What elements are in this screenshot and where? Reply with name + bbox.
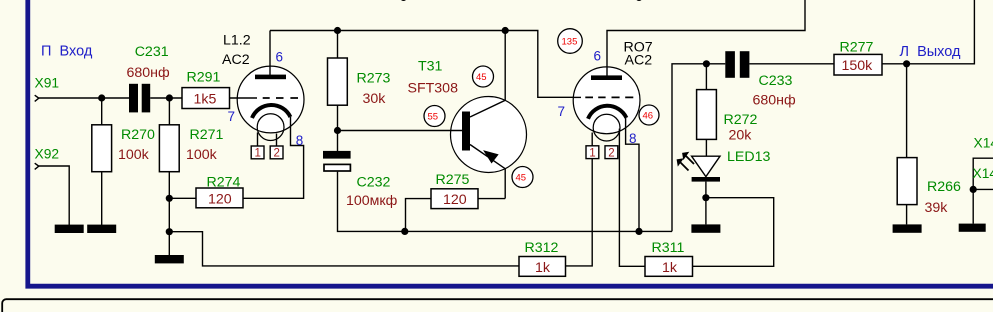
T31 type SFT308 xyxy=(408,81,459,97)
svg-text:SFT308: SFT308 xyxy=(408,81,459,97)
T31 collector xyxy=(470,31,505,118)
svg-text:2: 2 xyxy=(608,148,614,160)
junction R271/R274 xyxy=(166,195,173,202)
resistor R275 label xyxy=(436,172,470,188)
wire R274 to tube cathode xyxy=(243,117,304,198)
wire X92 to ground xyxy=(39,166,69,225)
svg-text:2: 2 xyxy=(274,148,280,160)
terminal X91 xyxy=(35,95,39,101)
svg-text:45: 45 xyxy=(516,173,527,184)
test point 55 (base) xyxy=(424,106,445,127)
T31 base bar xyxy=(462,112,470,151)
wire C231 to R291 xyxy=(150,97,182,99)
svg-text:R277: R277 xyxy=(840,40,874,56)
svg-text:AC2: AC2 xyxy=(222,52,250,68)
svg-text:T31: T31 xyxy=(418,59,443,75)
transistor T31 label xyxy=(418,59,443,75)
tube RO7 label xyxy=(624,40,653,69)
RO7 pin 8 label xyxy=(629,131,637,146)
L1.2 pin 8 label xyxy=(296,133,304,148)
R271 bottom lead to ground xyxy=(168,172,170,256)
ground (X14) xyxy=(959,224,986,232)
svg-text:C231: C231 xyxy=(135,44,169,60)
ground (R266) xyxy=(893,224,922,232)
capacitor C232 label xyxy=(357,175,391,191)
terminal X91 label xyxy=(35,76,60,91)
LED13 emission arrows xyxy=(677,152,694,171)
svg-text:1k5: 1k5 xyxy=(194,92,217,108)
tube L1.2 label xyxy=(222,33,251,69)
junction C231/R271/R291 xyxy=(166,94,173,101)
svg-text:1k: 1k xyxy=(535,260,551,276)
terminal X92 label xyxy=(35,147,60,162)
resistor R312 xyxy=(519,257,566,277)
junction output node xyxy=(903,60,910,67)
tube L1.2 envelope xyxy=(237,66,304,133)
terminal X92 xyxy=(35,163,39,169)
R275 left lead xyxy=(406,199,432,232)
junction R271/R312 run xyxy=(166,228,173,235)
transistor T31 circle xyxy=(451,97,527,173)
terminal X14 lower wire xyxy=(973,189,993,223)
L1.2 cathode arc xyxy=(252,105,290,118)
RO7 pin 6 label xyxy=(594,49,602,64)
wire R291 to tube grid xyxy=(230,97,258,99)
svg-text:8: 8 xyxy=(629,131,637,146)
junction LED/R311 xyxy=(702,194,709,201)
anode supply rail xyxy=(270,31,574,98)
resistor R270 value xyxy=(118,147,150,163)
resistor R273 label xyxy=(357,71,391,87)
svg-text:120: 120 xyxy=(208,191,232,207)
resistor R272 xyxy=(697,64,717,156)
junction RO7 cathode/emitter run xyxy=(635,228,642,235)
svg-text:R291: R291 xyxy=(187,70,221,86)
svg-text:R275: R275 xyxy=(436,172,470,188)
resistor R271 value xyxy=(186,147,218,163)
junction X14 lower xyxy=(970,186,977,193)
RO7 pin box 1 xyxy=(586,146,599,160)
svg-text:30k: 30k xyxy=(363,91,387,107)
svg-text:8: 8 xyxy=(296,133,304,148)
L1.2 anode lead xyxy=(269,31,271,76)
svg-text:135: 135 xyxy=(562,37,578,48)
LED13 lead to ground xyxy=(705,182,707,225)
ground (LED13) xyxy=(691,224,720,232)
L1.2 heater xyxy=(257,114,284,141)
junction top rail A (clipped) xyxy=(400,0,407,1)
wire X91 to C231 xyxy=(39,97,129,99)
L1.2 pin box 1 xyxy=(251,146,264,160)
svg-text:120: 120 xyxy=(443,192,467,208)
tube RO7 envelope xyxy=(573,67,640,134)
R270 bottom lead xyxy=(101,172,103,225)
L1.2 grid (dashed) xyxy=(263,97,298,99)
junction X91/R270 xyxy=(98,94,105,101)
svg-text:7: 7 xyxy=(228,109,236,124)
resistor R271 label xyxy=(190,127,224,143)
RO7 pin box 2 xyxy=(605,146,618,160)
svg-text:100k: 100k xyxy=(118,147,150,163)
resistor R271 top lead xyxy=(168,98,170,125)
RO7 cathode arc xyxy=(588,106,626,119)
resistor R273 value xyxy=(363,91,387,107)
svg-text:R266: R266 xyxy=(927,179,961,195)
capacitor C231 xyxy=(129,84,150,113)
junction top rail B (clipped) xyxy=(635,0,642,1)
resistor R277 xyxy=(834,54,882,75)
junction C232/R275 xyxy=(401,228,408,235)
svg-text:R312: R312 xyxy=(525,240,559,256)
RO7 pin 1 wire to R312 xyxy=(566,159,593,266)
svg-text:20k: 20k xyxy=(729,128,753,144)
test point 45 (collector) xyxy=(473,66,494,87)
RO7 anode lead + rail to top xyxy=(607,0,805,76)
RO7 grid (dashed) xyxy=(574,96,634,98)
svg-text:X92: X92 xyxy=(35,147,60,162)
junction R272 top xyxy=(703,60,710,67)
resistor R311 xyxy=(645,257,693,277)
RO7 pin 7 label xyxy=(558,104,566,119)
svg-text:LED13: LED13 xyxy=(727,149,770,165)
svg-text:100k: 100k xyxy=(186,147,218,163)
test point 135 xyxy=(558,29,583,54)
R275 right lead to emitter xyxy=(478,198,505,200)
svg-text:680нф: 680нф xyxy=(127,65,171,81)
capacitor C233 label xyxy=(759,73,793,89)
svg-text:7: 7 xyxy=(558,104,566,119)
svg-text:X14: X14 xyxy=(973,166,993,181)
ground (R271) xyxy=(155,255,184,263)
node Л Выход label xyxy=(900,44,961,60)
svg-text:L1.2: L1.2 xyxy=(223,33,251,49)
LED13 diode xyxy=(692,156,720,181)
resistor R291 label xyxy=(187,70,221,86)
svg-text:6: 6 xyxy=(594,49,602,64)
svg-text:680нф: 680нф xyxy=(753,93,797,109)
junction R273 top xyxy=(334,27,341,34)
resistor R270 label xyxy=(121,127,155,143)
L1.2 heater pin leads xyxy=(258,133,277,147)
node П Вход label xyxy=(41,44,93,60)
resistor R266 xyxy=(897,64,917,225)
wire C233 to R277 xyxy=(749,63,834,65)
ground (R270) xyxy=(87,225,116,233)
svg-text:150k: 150k xyxy=(842,58,874,74)
RO7 heater xyxy=(593,114,620,141)
RO7 anode plate xyxy=(591,75,622,80)
svg-text:1: 1 xyxy=(255,148,261,160)
C232 bottom lead + emitter node run xyxy=(338,172,673,232)
T31 emitter arrow (PNP) xyxy=(484,151,498,163)
resistor R274 xyxy=(196,188,243,208)
svg-text:6: 6 xyxy=(276,50,284,65)
wire R274 node run xyxy=(169,197,196,199)
resistor R277 label xyxy=(840,40,874,56)
svg-text:AC2: AC2 xyxy=(625,53,653,69)
test point 45 (emitter) xyxy=(512,167,533,188)
RO7 heater pin 1 lead xyxy=(591,133,593,146)
title block frame (bottom) xyxy=(2,299,993,312)
svg-text:R270: R270 xyxy=(121,127,155,143)
capacitor C233 xyxy=(725,51,749,78)
terminal X14 upper wire xyxy=(973,158,993,189)
resistor R275 xyxy=(431,189,478,209)
resistor R270 xyxy=(92,125,112,172)
LED13 label xyxy=(727,149,770,165)
svg-text:R271: R271 xyxy=(190,127,224,143)
capacitor C232 (electrolytic) xyxy=(323,151,351,171)
resistor R271 xyxy=(159,125,179,172)
RO7 cathode lead xyxy=(626,118,639,232)
resistor R291 xyxy=(182,88,230,109)
junction R273/C232/base xyxy=(334,127,341,134)
svg-text:X14: X14 xyxy=(974,136,993,151)
svg-text:45: 45 xyxy=(476,72,487,83)
svg-text:55: 55 xyxy=(428,112,439,123)
svg-text:1: 1 xyxy=(589,148,595,160)
resistor R311 label xyxy=(652,240,685,256)
resistor R272 value xyxy=(729,128,753,144)
resistor R312 label xyxy=(525,240,559,256)
svg-text:100мкф: 100мкф xyxy=(346,193,398,209)
C231 value 680нф xyxy=(127,65,171,81)
resistor R272 label xyxy=(724,112,758,128)
ground (X92) xyxy=(55,225,84,233)
svg-text:C233: C233 xyxy=(759,73,793,89)
svg-text:Л Выход: Л Выход xyxy=(900,44,961,60)
wire R277 to output xyxy=(882,0,974,64)
svg-text:X91: X91 xyxy=(35,76,60,91)
junction T31 collector rail xyxy=(502,27,509,34)
resistor R273 xyxy=(328,31,348,152)
RO7 pin 2 wire to R311 xyxy=(619,129,645,267)
resistor R266 label xyxy=(927,179,961,195)
svg-text:R273: R273 xyxy=(357,71,391,87)
svg-text:C232: C232 xyxy=(357,175,391,191)
wire R273 node to T31 base xyxy=(338,130,463,132)
L1.2 anode plate xyxy=(255,75,286,80)
T31 emitter xyxy=(470,145,505,199)
svg-text:R311: R311 xyxy=(652,240,685,256)
terminal X14 upper label xyxy=(974,136,993,151)
L1.2 pin 6 label xyxy=(276,50,284,65)
svg-text:П Вход: П Вход xyxy=(41,44,93,60)
svg-text:R272: R272 xyxy=(724,112,758,128)
svg-text:39k: 39k xyxy=(925,200,949,216)
wire LED node to R311 xyxy=(693,198,774,267)
C233 value 680нф xyxy=(753,93,797,109)
L1.2 pin box 2 xyxy=(270,146,283,160)
wire cathode node to C233 xyxy=(672,64,725,232)
terminal X14 lower label xyxy=(973,166,993,181)
L1.2 pin 7 label xyxy=(228,109,236,124)
svg-text:46: 46 xyxy=(643,111,654,122)
resistor R266 value xyxy=(925,200,949,216)
capacitor C231 label xyxy=(135,44,169,60)
test point 46 xyxy=(639,105,659,125)
resistor R270 top lead xyxy=(101,98,103,125)
C232 value 100мкф xyxy=(346,193,398,209)
resistor R274 label xyxy=(207,175,241,191)
svg-text:1k: 1k xyxy=(662,260,678,276)
wire to R312 run xyxy=(169,232,519,266)
